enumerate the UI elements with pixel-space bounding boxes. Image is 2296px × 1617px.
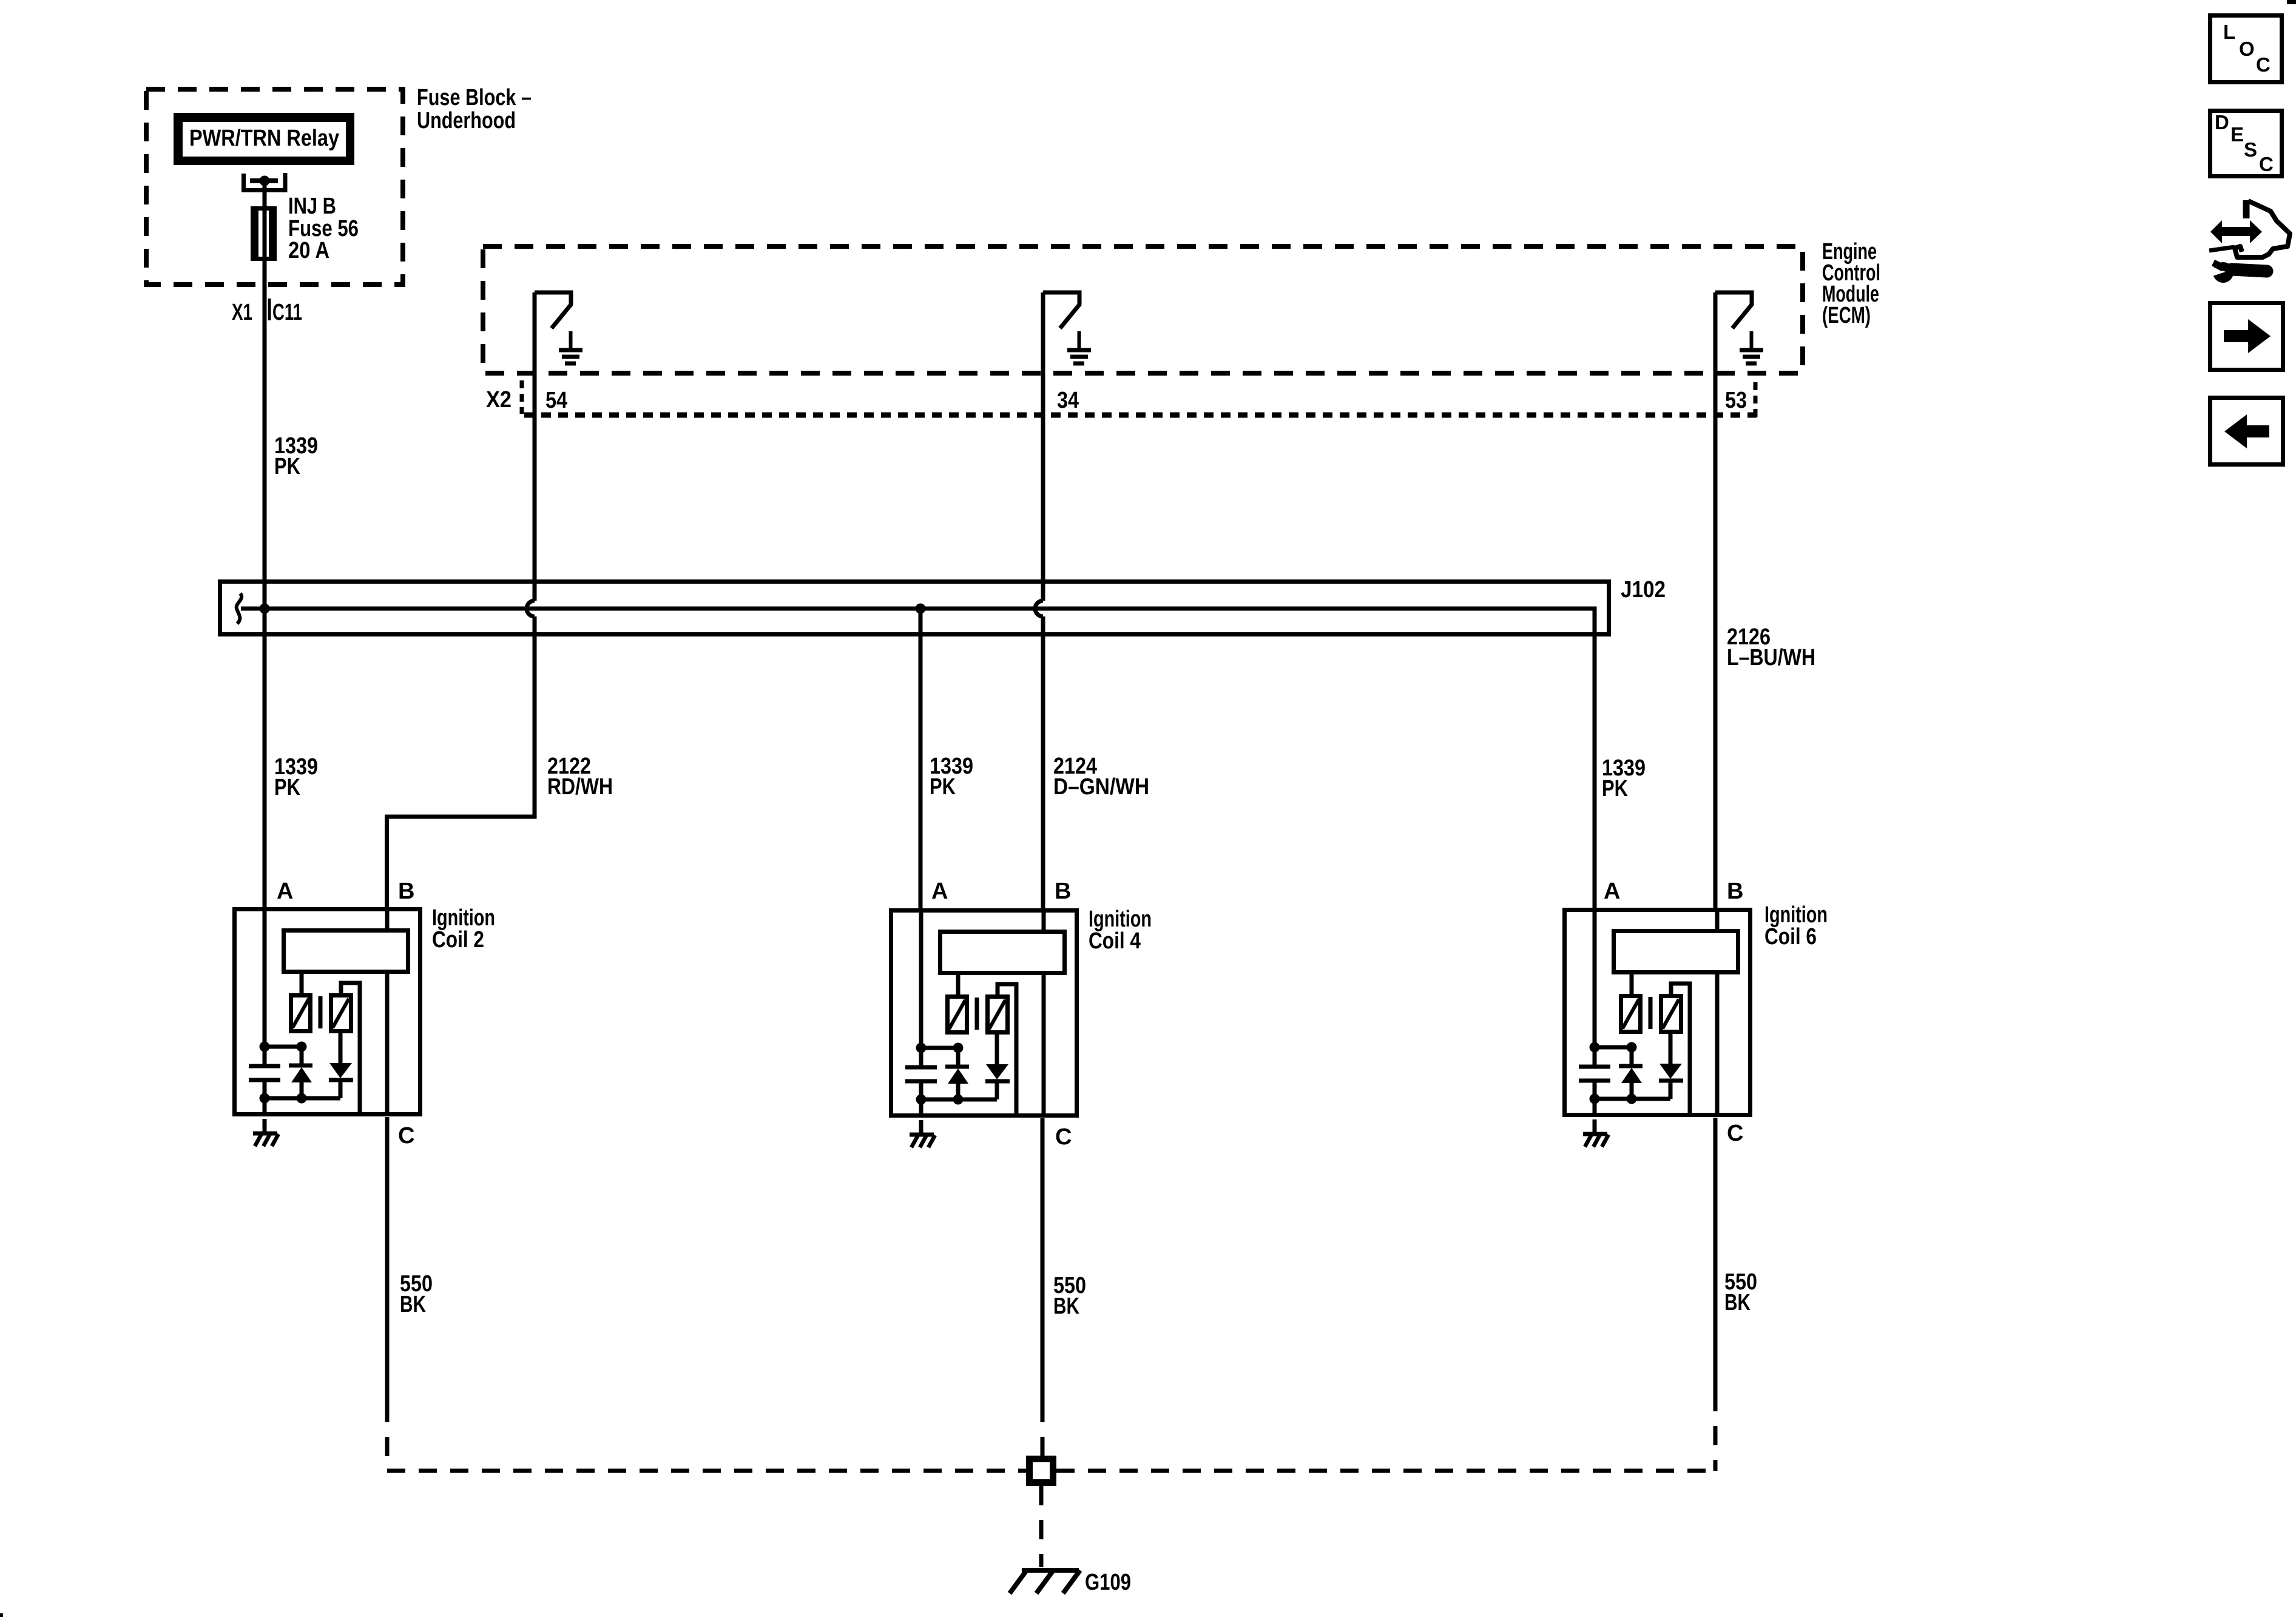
- svg-text:Underhood: Underhood: [417, 108, 516, 133]
- svg-text:RD/WH: RD/WH: [547, 774, 613, 800]
- svg-text:X2: X2: [486, 387, 512, 413]
- svg-text:L: L: [2223, 21, 2235, 43]
- svg-text:Coil 2: Coil 2: [432, 927, 484, 953]
- svg-text:BK: BK: [1053, 1294, 1079, 1319]
- svg-text:B: B: [1055, 879, 1071, 904]
- svg-text:54: 54: [545, 388, 567, 413]
- svg-text:C: C: [1055, 1124, 1072, 1150]
- svg-text:S: S: [2244, 138, 2257, 161]
- svg-text:A: A: [931, 879, 948, 904]
- svg-text:20 A: 20 A: [288, 238, 329, 263]
- svg-text:C: C: [1727, 1121, 1743, 1146]
- svg-text:C: C: [2256, 53, 2271, 76]
- svg-text:O: O: [2239, 38, 2255, 60]
- svg-text:C: C: [398, 1123, 414, 1149]
- svg-text:BK: BK: [400, 1292, 426, 1317]
- svg-text:Coil 4: Coil 4: [1089, 928, 1141, 954]
- svg-text:INJ B: INJ B: [288, 194, 336, 219]
- svg-text:J102: J102: [1621, 577, 1666, 603]
- svg-text:C11: C11: [272, 300, 302, 325]
- svg-text:A: A: [277, 879, 293, 904]
- svg-text:PK: PK: [1602, 776, 1628, 802]
- svg-text:G109: G109: [1085, 1570, 1131, 1595]
- svg-text:PWR/TRN Relay: PWR/TRN Relay: [189, 126, 339, 151]
- svg-text:D–GN/WH: D–GN/WH: [1053, 774, 1149, 800]
- svg-text:(ECM): (ECM): [1822, 303, 1871, 328]
- svg-text:B: B: [398, 879, 414, 904]
- svg-text:B: B: [1727, 879, 1743, 904]
- svg-text:C: C: [2259, 153, 2274, 175]
- svg-text:BK: BK: [1724, 1290, 1751, 1315]
- svg-text:E: E: [2230, 123, 2244, 146]
- svg-text:PK: PK: [930, 774, 956, 800]
- svg-text:34: 34: [1057, 388, 1079, 413]
- svg-text:PK: PK: [274, 775, 300, 800]
- svg-text:A: A: [1604, 879, 1620, 904]
- svg-text:X1: X1: [232, 300, 252, 325]
- svg-text:D: D: [2215, 111, 2229, 133]
- svg-text:Coil 6: Coil 6: [1764, 924, 1817, 950]
- svg-text:PK: PK: [274, 454, 300, 479]
- svg-text:Fuse Block –: Fuse Block –: [417, 85, 532, 110]
- svg-text:L–BU/WH: L–BU/WH: [1727, 645, 1815, 670]
- svg-text:53: 53: [1725, 388, 1747, 413]
